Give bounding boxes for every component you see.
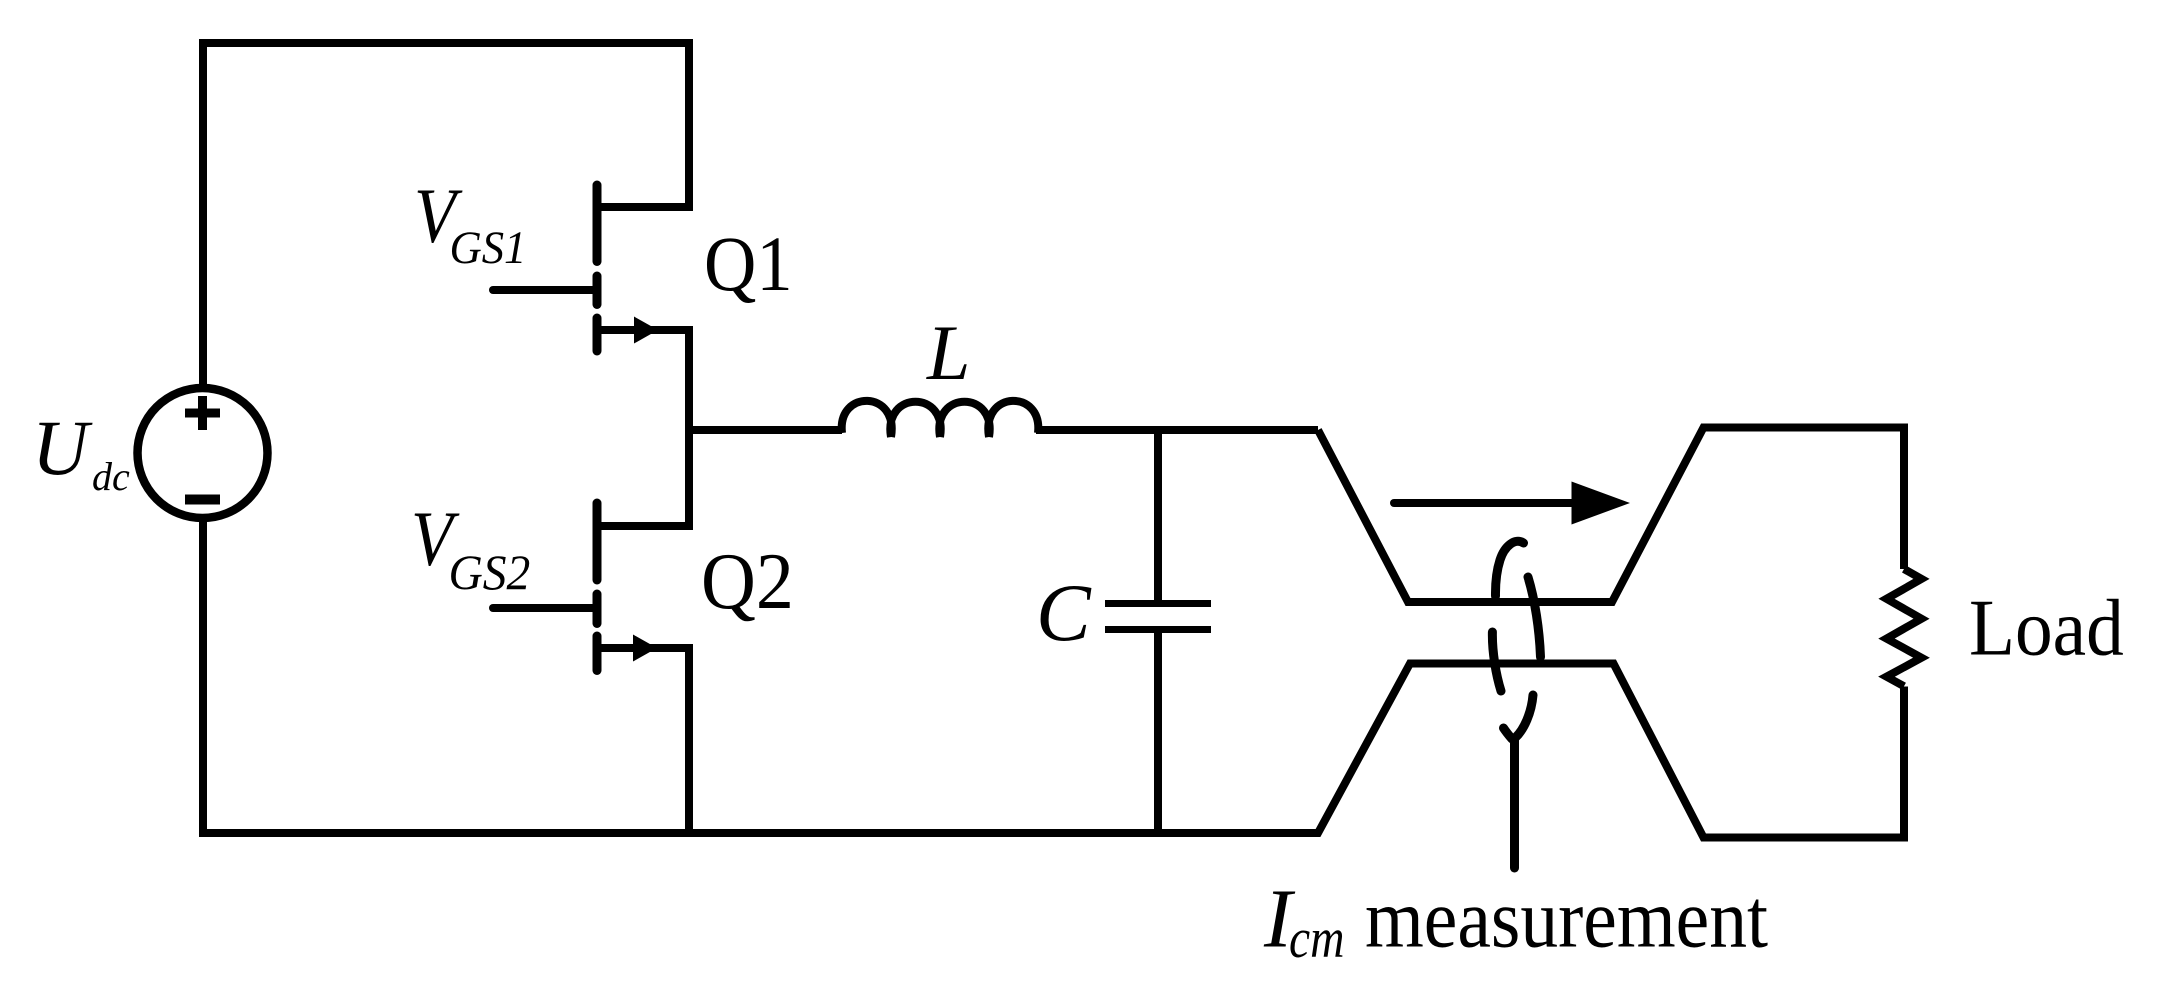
label measurement	[1365, 873, 1768, 966]
label Q2	[701, 536, 794, 625]
transistor Q1 gate lead	[493, 286, 594, 294]
transistor Q2 source arrow	[633, 635, 657, 662]
wire positive bus: source + terminal up, top bus, down to Q1 drain stub	[203, 43, 689, 389]
svg-text:Q1: Q1	[704, 222, 793, 308]
capacitor C top lead	[1154, 430, 1162, 600]
label Q1	[704, 222, 793, 308]
wire upper cable conductor: diagonal, narrow section, diagonal, top rail to load top	[1318, 428, 1904, 603]
wire inductor to cable split	[1036, 426, 1318, 434]
current direction arrow shaft	[1394, 499, 1574, 507]
svg-text:GS2: GS2	[449, 545, 531, 600]
current probe lead down	[1510, 739, 1519, 868]
svg-text:C: C	[1036, 567, 1092, 658]
svg-text:Q2: Q2	[701, 536, 794, 625]
label V_GS2	[411, 496, 460, 582]
svg-text:cm: cm	[1289, 909, 1344, 970]
label U_dc	[32, 404, 93, 491]
dc source U_dc circle	[138, 388, 268, 518]
label V_GS1	[414, 173, 463, 259]
capacitor C plates	[1105, 604, 1211, 630]
plus symbol	[185, 396, 220, 430]
inductor L winding	[842, 401, 1039, 437]
wire left lower (source minus to bottom bus)	[199, 518, 207, 833]
wire negative bus: bottom rail, lower cable conductor (diagonals and narrow section) to load bottom	[199, 664, 1904, 838]
svg-text:L: L	[926, 309, 970, 396]
label L	[926, 309, 970, 396]
transistor Q1 source stub down to Q2 drain stub	[599, 330, 689, 526]
transistor Q2 channel bar	[593, 503, 602, 671]
capacitor C bottom lead	[1154, 633, 1162, 833]
transistor Q1 channel bar	[593, 185, 602, 351]
current probe loop arcs	[1492, 541, 1540, 868]
svg-text:dc: dc	[92, 454, 130, 499]
current direction arrowhead	[1572, 482, 1631, 525]
transistor Q1 source arrow	[634, 317, 658, 344]
minus symbol	[185, 495, 220, 505]
svg-text:GS1: GS1	[450, 221, 527, 273]
svg-text:measurement: measurement	[1365, 873, 1768, 966]
resistor Load zigzag	[1887, 569, 1922, 686]
svg-text:U: U	[32, 404, 93, 491]
svg-text:Load: Load	[1969, 582, 2124, 672]
label C	[1036, 567, 1092, 658]
label I_cm	[1263, 873, 1296, 966]
label Load	[1969, 582, 2124, 672]
transistor Q2 gate lead	[493, 604, 594, 612]
wire midpoint node to inductor	[685, 426, 842, 434]
transistor Q2 source stub	[599, 648, 689, 833]
